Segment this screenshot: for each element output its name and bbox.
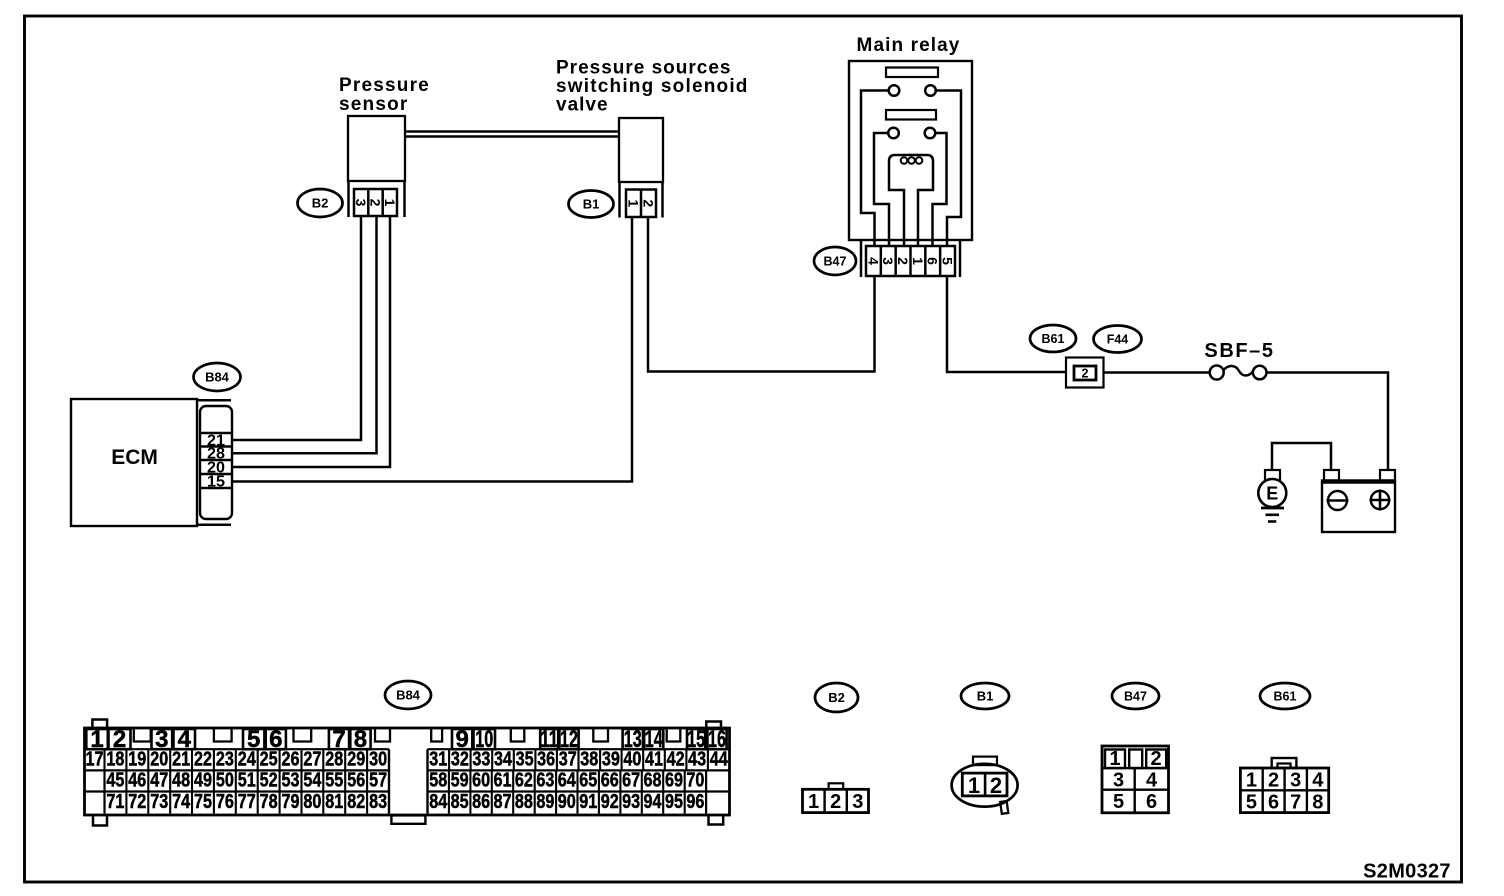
pin 69 label (B84 pinout) bbox=[665, 770, 683, 792]
pin 85 label (B84 pinout) bbox=[451, 791, 469, 813]
pin 94 label (B84 pinout) bbox=[644, 791, 663, 813]
pin 88 label (B84 pinout) bbox=[515, 791, 533, 813]
battery negative terminal tab bbox=[1324, 470, 1339, 481]
pin 1 label (B47) bbox=[910, 257, 926, 265]
svg-text:82: 82 bbox=[347, 791, 365, 813]
pin 6 label (B47 pinout) bbox=[1146, 791, 1157, 813]
svg-text:B2: B2 bbox=[828, 690, 845, 705]
connector B47 housing (main relay) bbox=[861, 241, 960, 277]
relay internal wire to pin 1 bbox=[861, 91, 889, 248]
pin 2 label (B61 pinout) bbox=[1268, 770, 1279, 792]
B84 polarization notches bbox=[134, 728, 681, 742]
pin 20 label (B84 pinout) bbox=[150, 748, 168, 770]
connector B1 pinout bbox=[952, 757, 1018, 814]
pin 8 label (B61 pinout) bbox=[1312, 792, 1323, 814]
svg-text:75: 75 bbox=[194, 791, 212, 813]
pin 53 label (B84 pinout) bbox=[282, 770, 300, 792]
svg-text:94: 94 bbox=[644, 791, 663, 813]
svg-text:1: 1 bbox=[626, 199, 642, 207]
pin 6 label (B84 pinout) bbox=[269, 726, 282, 753]
svg-text:42: 42 bbox=[667, 748, 685, 770]
svg-text:29: 29 bbox=[347, 748, 365, 770]
connector oval B2 (pinout) bbox=[815, 683, 858, 712]
relay internal wire to pin 2 bbox=[874, 133, 889, 247]
B84 row 2 pin cells bbox=[105, 749, 708, 770]
label: ECM bbox=[111, 446, 158, 469]
pin 2 label (B2 pinout) bbox=[830, 791, 841, 813]
svg-text:54: 54 bbox=[303, 770, 322, 792]
pin 32 label (B84 pinout) bbox=[451, 748, 469, 770]
svg-text:2: 2 bbox=[641, 199, 657, 207]
wire B1 pin 2 to B47 pin 1 bbox=[648, 218, 875, 372]
pin 72 label (B84 pinout) bbox=[128, 791, 146, 813]
svg-text:1: 1 bbox=[1109, 748, 1120, 770]
pin 3 label (B47) bbox=[880, 257, 896, 265]
pin 1 label (B2 pinout) bbox=[808, 791, 819, 813]
svg-text:40: 40 bbox=[623, 748, 641, 770]
pin 2 label (B47 pinout) bbox=[1150, 748, 1161, 770]
svg-text:5: 5 bbox=[1113, 791, 1124, 813]
B84 edge blank cells bbox=[105, 770, 707, 813]
svg-text:B84: B84 bbox=[396, 688, 421, 703]
pin 29 label (B84 pinout) bbox=[347, 748, 365, 770]
connector B2 pinout bbox=[803, 783, 869, 812]
svg-text:18: 18 bbox=[106, 748, 124, 770]
ground node E bbox=[1258, 479, 1286, 507]
main relay body bbox=[849, 61, 972, 240]
pin 28 label (ECM B84) bbox=[207, 446, 225, 463]
pin 6 label (B47) bbox=[925, 257, 941, 265]
svg-text:19: 19 bbox=[128, 748, 146, 770]
pin 16 label (B84 pinout) bbox=[708, 726, 726, 753]
wire battery negative to ground E bbox=[1272, 443, 1331, 470]
svg-text:77: 77 bbox=[238, 791, 256, 813]
pin 31 label (B84 pinout) bbox=[429, 748, 447, 770]
pin 33 label (B84 pinout) bbox=[472, 748, 490, 770]
wire ECM pin 28 to B2 pin 2 bbox=[232, 217, 377, 453]
svg-text:2: 2 bbox=[1150, 748, 1161, 770]
ECM connector strip B84 bbox=[200, 406, 232, 519]
pin 95 label (B84 pinout) bbox=[665, 791, 683, 813]
svg-text:51: 51 bbox=[238, 770, 256, 792]
svg-text:67: 67 bbox=[622, 770, 640, 792]
pin 73 label (B84 pinout) bbox=[150, 791, 168, 813]
pin 83 label (B84 pinout) bbox=[369, 791, 387, 813]
pin 8 label (B84 pinout) bbox=[354, 726, 367, 753]
svg-text:49: 49 bbox=[194, 770, 212, 792]
pin 71 label (B84 pinout) bbox=[106, 791, 124, 813]
svg-text:81: 81 bbox=[325, 791, 343, 813]
B84 row 4 pin cells bbox=[126, 792, 684, 814]
svg-text:1: 1 bbox=[1246, 770, 1257, 792]
connector oval B1 bbox=[569, 191, 614, 218]
svg-text:88: 88 bbox=[515, 791, 533, 813]
svg-text:valve: valve bbox=[556, 95, 609, 116]
svg-text:55: 55 bbox=[325, 770, 343, 792]
pin 59 label (B84 pinout) bbox=[451, 770, 469, 792]
svg-text:26: 26 bbox=[282, 748, 300, 770]
pin 80 label (B84 pinout) bbox=[303, 791, 321, 813]
pin 65 label (B84 pinout) bbox=[579, 770, 597, 792]
inline connector B61/F44 with pin 2 bbox=[1066, 358, 1104, 388]
relay contact point 2a bbox=[888, 128, 899, 139]
svg-text:7: 7 bbox=[1290, 792, 1301, 814]
pin 58 label (B84 pinout) bbox=[429, 770, 447, 792]
svg-text:59: 59 bbox=[451, 770, 469, 792]
pin 79 label (B84 pinout) bbox=[282, 791, 300, 813]
svg-text:E: E bbox=[1266, 484, 1278, 504]
svg-text:32: 32 bbox=[451, 748, 469, 770]
svg-text:15: 15 bbox=[207, 473, 225, 490]
pin 10 label (B84 pinout) bbox=[475, 726, 493, 753]
svg-text:57: 57 bbox=[369, 770, 387, 792]
svg-text:37: 37 bbox=[559, 748, 577, 770]
wire ECM pin 20 to B2 pin 1 bbox=[232, 217, 390, 467]
svg-text:4: 4 bbox=[1146, 770, 1158, 792]
wire ECM pin 15 to B1 pin 1 bbox=[232, 218, 632, 482]
svg-text:3: 3 bbox=[1113, 770, 1124, 792]
connector oval B47 bbox=[814, 247, 856, 275]
connector oval B61 (pinout) bbox=[1260, 683, 1310, 709]
svg-text:17: 17 bbox=[86, 748, 104, 770]
pin 24 label (B84 pinout) bbox=[238, 748, 257, 770]
svg-text:86: 86 bbox=[472, 791, 490, 813]
pin 30 label (B84 pinout) bbox=[369, 748, 387, 770]
relay internal wire to pin 6 bbox=[936, 91, 961, 248]
svg-text:46: 46 bbox=[128, 770, 146, 792]
pin 61 label (B84 pinout) bbox=[494, 770, 512, 792]
pin 93 label (B84 pinout) bbox=[622, 791, 640, 813]
pin 34 label (B84 pinout) bbox=[494, 748, 513, 770]
svg-text:84: 84 bbox=[429, 791, 448, 813]
connector B2 housing (pressure sensor) bbox=[349, 181, 405, 217]
battery positive terminal tab bbox=[1380, 470, 1395, 481]
svg-text:61: 61 bbox=[494, 770, 512, 792]
ground symbol bbox=[1261, 508, 1284, 522]
svg-text:B61: B61 bbox=[1274, 689, 1297, 703]
relay coil bbox=[889, 155, 933, 246]
svg-text:65: 65 bbox=[579, 770, 597, 792]
svg-text:63: 63 bbox=[536, 770, 554, 792]
pin 26 label (B84 pinout) bbox=[282, 748, 300, 770]
pin 4 label (B61 pinout) bbox=[1312, 770, 1324, 792]
svg-text:1: 1 bbox=[968, 773, 980, 798]
pin 64 label (B84 pinout) bbox=[558, 770, 577, 792]
pin 70 label (B84 pinout) bbox=[686, 770, 704, 792]
label: Pressure sources switching solenoid valve bbox=[556, 58, 749, 116]
pin 38 label (B84 pinout) bbox=[580, 748, 598, 770]
solenoid valve body bbox=[619, 118, 663, 182]
svg-text:74: 74 bbox=[172, 791, 191, 813]
svg-text:30: 30 bbox=[369, 748, 387, 770]
svg-text:23: 23 bbox=[216, 748, 234, 770]
svg-text:44: 44 bbox=[710, 748, 729, 770]
pin 55 label (B84 pinout) bbox=[325, 770, 343, 792]
pin 4 label (B47) bbox=[865, 257, 881, 265]
svg-text:92: 92 bbox=[601, 791, 619, 813]
svg-text:70: 70 bbox=[686, 770, 704, 792]
pin 13 label (B84 pinout) bbox=[624, 726, 642, 753]
pin 9 label (B84 pinout) bbox=[455, 726, 468, 753]
svg-text:25: 25 bbox=[260, 748, 278, 770]
connector oval F44 bbox=[1094, 326, 1142, 353]
pin 1 label (B1 pinout) bbox=[968, 773, 980, 798]
pin 18 label (B84 pinout) bbox=[106, 748, 124, 770]
svg-text:20: 20 bbox=[150, 748, 168, 770]
svg-text:80: 80 bbox=[303, 791, 321, 813]
svg-text:85: 85 bbox=[451, 791, 469, 813]
svg-text:68: 68 bbox=[644, 770, 662, 792]
svg-text:93: 93 bbox=[622, 791, 640, 813]
pin 40 label (B84 pinout) bbox=[623, 748, 641, 770]
svg-text:90: 90 bbox=[558, 791, 576, 813]
label: SBF-5 bbox=[1204, 340, 1274, 362]
pin 23 label (B84 pinout) bbox=[216, 748, 234, 770]
pin 1 label (B47 pinout) bbox=[1109, 748, 1120, 770]
pin 51 label (B84 pinout) bbox=[238, 770, 256, 792]
svg-text:50: 50 bbox=[216, 770, 234, 792]
svg-text:87: 87 bbox=[494, 791, 512, 813]
svg-text:73: 73 bbox=[150, 791, 168, 813]
B84 row 1 pin cells bbox=[86, 729, 726, 749]
pin 39 label (B84 pinout) bbox=[602, 748, 620, 770]
svg-text:41: 41 bbox=[645, 748, 663, 770]
relay contact bar 2 bbox=[886, 110, 936, 120]
connector B1 housing (solenoid valve) bbox=[620, 182, 663, 218]
pin 3 label (B2 pinout) bbox=[852, 791, 863, 813]
svg-text:2: 2 bbox=[895, 257, 911, 265]
svg-text:58: 58 bbox=[429, 770, 447, 792]
pin 21 label (B84 pinout) bbox=[172, 748, 190, 770]
pin 75 label (B84 pinout) bbox=[194, 791, 212, 813]
relay contact point 2b bbox=[925, 128, 936, 139]
svg-text:64: 64 bbox=[558, 770, 577, 792]
svg-text:S2M0327: S2M0327 bbox=[1363, 861, 1451, 883]
svg-text:B61: B61 bbox=[1042, 332, 1065, 346]
svg-text:79: 79 bbox=[282, 791, 300, 813]
svg-text:3: 3 bbox=[880, 257, 896, 265]
pin 5 label (B61 pinout) bbox=[1246, 792, 1257, 814]
pin 7 label (B61 pinout) bbox=[1290, 792, 1301, 814]
svg-text:8: 8 bbox=[1312, 792, 1323, 814]
svg-text:2: 2 bbox=[990, 773, 1002, 798]
pin 68 label (B84 pinout) bbox=[644, 770, 662, 792]
pin 15 label (B84 pinout) bbox=[687, 726, 705, 753]
svg-text:B1: B1 bbox=[977, 689, 994, 704]
svg-text:31: 31 bbox=[429, 748, 447, 770]
pin 6 label (B61 pinout) bbox=[1268, 792, 1279, 814]
svg-text:76: 76 bbox=[216, 791, 234, 813]
svg-text:B2: B2 bbox=[312, 196, 329, 211]
pin 37 label (B84 pinout) bbox=[559, 748, 577, 770]
pin 20 label (ECM B84) bbox=[207, 459, 225, 476]
wire B47 pin 6 to B61 connector bbox=[947, 277, 1066, 372]
connector B84 pinout (96-pin) bbox=[85, 720, 730, 826]
pin 36 label (B84 pinout) bbox=[537, 748, 555, 770]
svg-text:91: 91 bbox=[579, 791, 597, 813]
pin 1 label (B1) bbox=[626, 199, 642, 207]
svg-text:3: 3 bbox=[852, 791, 863, 813]
svg-text:4: 4 bbox=[1312, 770, 1324, 792]
pin 27 label (B84 pinout) bbox=[303, 748, 321, 770]
pin 48 label (B84 pinout) bbox=[172, 770, 190, 792]
svg-text:72: 72 bbox=[128, 791, 146, 813]
pin 43 label (B84 pinout) bbox=[688, 748, 706, 770]
svg-text:2: 2 bbox=[368, 199, 384, 207]
svg-text:4: 4 bbox=[865, 257, 881, 265]
connector oval B84 (upper) bbox=[194, 363, 241, 391]
svg-text:B47: B47 bbox=[824, 254, 847, 268]
pin 2 label (B47) bbox=[895, 257, 911, 265]
svg-text:2: 2 bbox=[1082, 366, 1089, 380]
label: Pressure sensor bbox=[339, 75, 430, 115]
B84 row 3 pin cells bbox=[126, 770, 684, 791]
svg-text:2: 2 bbox=[1268, 770, 1279, 792]
pin 81 label (B84 pinout) bbox=[325, 791, 343, 813]
battery positive symbol bbox=[1370, 490, 1391, 511]
pin 3 label (B84 pinout) bbox=[155, 726, 168, 753]
pressure sensor body bbox=[348, 116, 405, 181]
pin 63 label (B84 pinout) bbox=[536, 770, 554, 792]
pin 87 label (B84 pinout) bbox=[494, 791, 512, 813]
svg-text:6: 6 bbox=[1146, 791, 1157, 813]
pin 96 label (B84 pinout) bbox=[686, 791, 704, 813]
pin 2 label (B1) bbox=[641, 199, 657, 207]
ground E terminal tab bbox=[1265, 470, 1280, 480]
pin 47 label (B84 pinout) bbox=[150, 770, 168, 792]
pin 12 label (B84 pinout) bbox=[560, 726, 578, 753]
pin 4 label (B84 pinout) bbox=[178, 726, 192, 753]
connector B61 pinout bbox=[1240, 758, 1328, 813]
svg-text:5: 5 bbox=[1246, 792, 1257, 814]
svg-text:56: 56 bbox=[347, 770, 365, 792]
svg-text:28: 28 bbox=[325, 748, 343, 770]
svg-text:3: 3 bbox=[1290, 770, 1301, 792]
pin 82 label (B84 pinout) bbox=[347, 791, 365, 813]
pin 1 label (B61 pinout) bbox=[1246, 770, 1257, 792]
pin 11 label (B84 pinout) bbox=[540, 726, 558, 753]
svg-text:Pressure: Pressure bbox=[339, 75, 430, 96]
pin 62 label (B84 pinout) bbox=[515, 770, 533, 792]
svg-text:95: 95 bbox=[665, 791, 683, 813]
svg-text:1: 1 bbox=[910, 257, 926, 265]
svg-text:22: 22 bbox=[194, 748, 212, 770]
svg-text:B47: B47 bbox=[1124, 689, 1147, 703]
pin 86 label (B84 pinout) bbox=[472, 791, 490, 813]
pin 5 label (B47) bbox=[940, 257, 956, 265]
pin 41 label (B84 pinout) bbox=[645, 748, 663, 770]
pin 91 label (B84 pinout) bbox=[579, 791, 597, 813]
wire fuse to battery positive bbox=[1267, 373, 1389, 471]
pin 5 label (B84 pinout) bbox=[247, 726, 260, 753]
pin 45 label (B84 pinout) bbox=[106, 770, 124, 792]
pin 2 label (B1 pinout) bbox=[990, 773, 1002, 798]
pin 77 label (B84 pinout) bbox=[238, 791, 256, 813]
svg-text:2: 2 bbox=[830, 791, 841, 813]
connector oval B61 (upper) bbox=[1030, 325, 1076, 352]
pin 25 label (B84 pinout) bbox=[260, 748, 278, 770]
pin 78 label (B84 pinout) bbox=[260, 791, 278, 813]
svg-text:60: 60 bbox=[472, 770, 490, 792]
svg-text:SBF–5: SBF–5 bbox=[1204, 340, 1274, 362]
pin 74 label (B84 pinout) bbox=[172, 791, 191, 813]
pin 3 label (B61 pinout) bbox=[1290, 770, 1301, 792]
pin 54 label (B84 pinout) bbox=[303, 770, 322, 792]
pin 14 label (B84 pinout) bbox=[645, 726, 663, 753]
pin 3 label (B47 pinout) bbox=[1113, 770, 1124, 792]
pin 60 label (B84 pinout) bbox=[472, 770, 490, 792]
svg-text:34: 34 bbox=[494, 748, 513, 770]
svg-text:38: 38 bbox=[580, 748, 598, 770]
pin 89 label (B84 pinout) bbox=[536, 791, 554, 813]
svg-text:ECM: ECM bbox=[111, 446, 158, 469]
svg-text:69: 69 bbox=[665, 770, 683, 792]
svg-text:6: 6 bbox=[925, 257, 941, 265]
pin 84 label (B84 pinout) bbox=[429, 791, 448, 813]
pin 19 label (B84 pinout) bbox=[128, 748, 146, 770]
pin 52 label (B84 pinout) bbox=[260, 770, 278, 792]
pin 15 label (ECM B84) bbox=[207, 473, 225, 490]
fuse SBF-5 bbox=[1210, 366, 1267, 380]
svg-text:78: 78 bbox=[260, 791, 278, 813]
pin 90 label (B84 pinout) bbox=[558, 791, 576, 813]
relay contact point 1a bbox=[889, 85, 900, 96]
svg-text:48: 48 bbox=[172, 770, 190, 792]
pin 7 label (B84 pinout) bbox=[332, 726, 345, 753]
pin 44 label (B84 pinout) bbox=[710, 748, 729, 770]
svg-text:83: 83 bbox=[369, 791, 387, 813]
svg-text:96: 96 bbox=[686, 791, 704, 813]
pin 5 label (B47 pinout) bbox=[1113, 791, 1124, 813]
pin 92 label (B84 pinout) bbox=[601, 791, 619, 813]
svg-text:21: 21 bbox=[172, 748, 190, 770]
pin 49 label (B84 pinout) bbox=[194, 770, 212, 792]
svg-text:47: 47 bbox=[150, 770, 168, 792]
svg-text:sensor: sensor bbox=[339, 94, 409, 115]
pin 67 label (B84 pinout) bbox=[622, 770, 640, 792]
pin 2 label (B2) bbox=[368, 199, 384, 207]
ECM box bbox=[71, 399, 231, 526]
pin 4 label (B47 pinout) bbox=[1146, 770, 1158, 792]
relay contact point 1b bbox=[925, 85, 936, 96]
svg-text:45: 45 bbox=[106, 770, 124, 792]
pin 50 label (B84 pinout) bbox=[216, 770, 234, 792]
svg-text:24: 24 bbox=[238, 748, 257, 770]
svg-text:F44: F44 bbox=[1107, 332, 1129, 346]
wire ECM pin 21 to B2 pin 3 bbox=[232, 217, 361, 440]
svg-text:35: 35 bbox=[516, 748, 534, 770]
pin 28 label (B84 pinout) bbox=[325, 748, 343, 770]
svg-text:33: 33 bbox=[472, 748, 490, 770]
figure number S2M0327 bbox=[1363, 861, 1451, 883]
svg-text:6: 6 bbox=[1268, 792, 1279, 814]
connector B47 pinout bbox=[1102, 746, 1169, 813]
svg-text:36: 36 bbox=[537, 748, 555, 770]
pin 42 label (B84 pinout) bbox=[667, 748, 685, 770]
svg-text:1: 1 bbox=[382, 199, 398, 207]
battery negative symbol bbox=[1327, 491, 1349, 510]
svg-text:39: 39 bbox=[602, 748, 620, 770]
pin 57 label (B84 pinout) bbox=[369, 770, 387, 792]
pin 17 label (B84 pinout) bbox=[86, 748, 104, 770]
svg-text:1: 1 bbox=[808, 791, 819, 813]
pin 1 label (B2) bbox=[382, 199, 398, 207]
pin 56 label (B84 pinout) bbox=[347, 770, 365, 792]
svg-text:43: 43 bbox=[688, 748, 706, 770]
hose line between sensor and solenoid valve bbox=[405, 132, 619, 137]
connector oval B2 bbox=[298, 189, 343, 217]
svg-text:B1: B1 bbox=[583, 197, 600, 212]
